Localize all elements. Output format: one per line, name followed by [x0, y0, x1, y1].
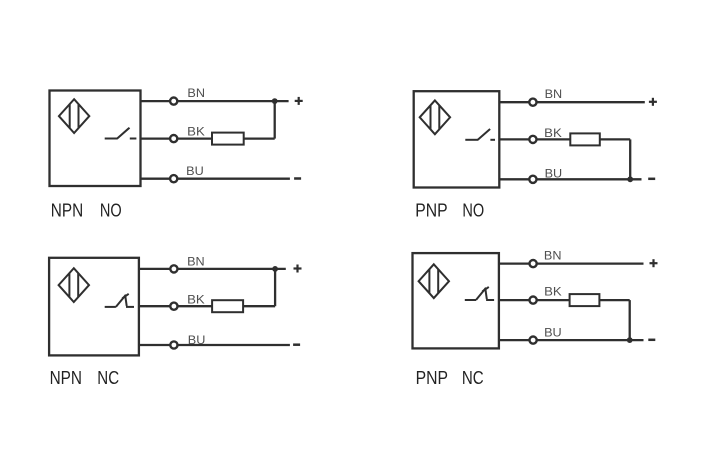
caption NPN NC: [50, 368, 120, 388]
terminal BN: [530, 260, 537, 267]
svg-text:BN: BN: [187, 88, 205, 100]
sensor symbol (diamond) U1: [59, 99, 89, 133]
sensor box U3 (NPN NC): [49, 258, 139, 356]
svg-text:PNP: PNP: [415, 200, 447, 220]
svg-text:NO: NO: [462, 200, 484, 220]
wire BU (box to terminal): [499, 339, 529, 341]
sensor symbol (diamond) U4: [419, 264, 449, 298]
sensor symbol (diamond) U2: [420, 100, 450, 134]
plus terminal symbol: [650, 259, 658, 267]
wire BU (terminal to minus): [178, 178, 290, 180]
plus terminal symbol: [649, 98, 657, 106]
plus terminal symbol: [295, 97, 303, 105]
terminal BN: [170, 265, 177, 272]
terminal BU: [170, 175, 177, 182]
minus terminal symbol: [293, 343, 300, 346]
wire BN (terminal to plus): [178, 100, 289, 102]
wire (corner vertical): [629, 300, 631, 340]
svg-text:NC: NC: [462, 368, 484, 388]
svg-text:BN: BN: [545, 89, 563, 101]
svg-text:BU: BU: [186, 166, 204, 178]
svg-text:BK: BK: [544, 128, 562, 140]
wire BK (box to terminal): [141, 137, 170, 139]
svg-text:NPN: NPN: [51, 200, 83, 220]
terminal BK: [170, 303, 177, 310]
wire BK (terminal to load): [178, 305, 212, 307]
svg-text:BN: BN: [544, 251, 562, 263]
wire BK (box to terminal): [499, 299, 529, 301]
plus terminal symbol: [294, 265, 302, 273]
svg-text:BK: BK: [187, 127, 205, 139]
wire (junction vertical): [274, 101, 276, 139]
wire BU (terminal to minus): [537, 339, 643, 341]
wire (junction vertical): [274, 269, 276, 306]
caption NPN NO: [51, 200, 122, 220]
svg-text:BK: BK: [187, 295, 205, 307]
load resistor RL: [212, 133, 244, 145]
wire BU (box to terminal): [139, 344, 170, 346]
minus terminal symbol: [648, 339, 655, 342]
svg-text:NC: NC: [97, 368, 119, 388]
wire BU (terminal to minus): [537, 178, 641, 180]
svg-text:BU: BU: [188, 335, 206, 347]
switch S4 (NC contact): [465, 287, 494, 300]
terminal BN: [170, 98, 177, 105]
switch S2 (NO contact): [465, 129, 495, 140]
wire BU (box to terminal): [499, 178, 528, 180]
wire BN (box to terminal): [141, 100, 170, 102]
wire BU (box to terminal): [141, 178, 170, 180]
svg-text:BK: BK: [544, 287, 562, 299]
load resistor RL: [212, 300, 243, 312]
sensor box U1 (NPN NO): [50, 91, 141, 187]
svg-text:NPN: NPN: [50, 368, 82, 388]
terminal BU: [529, 176, 536, 183]
wire BK (terminal to load): [178, 137, 212, 139]
svg-text:BU: BU: [545, 168, 563, 180]
wire BK (terminal to load): [537, 138, 570, 140]
junction node (BU/load): [627, 176, 633, 182]
terminal BK: [529, 136, 536, 143]
terminal BN: [529, 99, 536, 106]
junction node (BN/load): [272, 98, 278, 104]
minus terminal symbol: [294, 177, 301, 180]
wire BN (terminal to plus): [537, 262, 643, 264]
wire BU (terminal to minus): [178, 344, 290, 346]
wire BN (box to terminal): [499, 262, 529, 264]
minus terminal symbol: [648, 178, 655, 181]
wire BN (terminal to plus): [537, 101, 645, 103]
terminal BK: [170, 135, 177, 142]
switch S1 (NO contact): [105, 128, 137, 139]
wire BN (box to terminal): [499, 101, 528, 103]
svg-text:BN: BN: [187, 256, 205, 268]
svg-text:NO: NO: [100, 200, 122, 220]
caption PNP NO: [415, 200, 484, 220]
svg-text:PNP: PNP: [416, 368, 448, 388]
wire (load to corner): [599, 299, 629, 301]
wire (corner vertical): [629, 139, 631, 179]
sensor box U2 (PNP NO): [414, 91, 500, 187]
junction node (BN/load): [272, 266, 278, 272]
switch S3 (NC contact): [105, 294, 134, 307]
caption PNP NC: [416, 368, 484, 388]
junction node (BU/load): [627, 337, 633, 343]
wire BN (box to terminal): [139, 268, 170, 270]
wire BK (box to terminal): [139, 305, 170, 307]
svg-text:BU: BU: [544, 328, 562, 340]
wire (load to corner): [600, 138, 630, 140]
terminal BU: [530, 337, 537, 344]
wire (load to junction): [243, 305, 275, 307]
sensor box U4 (PNP NC): [413, 253, 499, 348]
sensor symbol (diamond) U3: [59, 268, 89, 302]
load resistor RL: [570, 294, 600, 306]
wire BK (box to terminal): [499, 138, 528, 140]
wire (load to junction): [244, 137, 275, 139]
wire BN (terminal to plus): [178, 268, 286, 270]
terminal BU: [170, 341, 177, 348]
load resistor RL: [570, 133, 600, 145]
wire BK (terminal to load): [537, 299, 569, 301]
terminal BK: [530, 297, 537, 304]
